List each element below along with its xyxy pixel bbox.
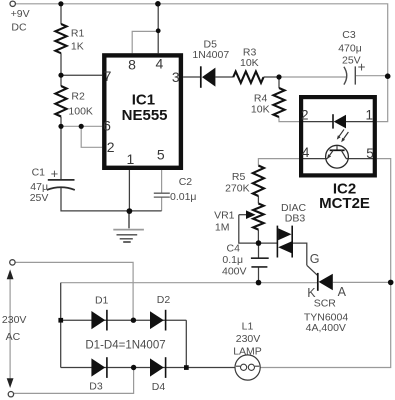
svg-text:L1: L1	[242, 321, 254, 333]
svg-text:+9V: +9V	[11, 8, 30, 20]
svg-text:1M: 1M	[215, 222, 230, 234]
svg-text:D1: D1	[95, 294, 109, 306]
svg-text:25V: 25V	[30, 192, 49, 204]
svg-text:6: 6	[103, 118, 111, 134]
svg-text:IC1: IC1	[132, 91, 155, 108]
svg-text:D3: D3	[89, 380, 103, 392]
svg-text:R2: R2	[71, 91, 85, 103]
svg-text:3: 3	[172, 69, 180, 85]
svg-text:470μ: 470μ	[338, 42, 362, 54]
svg-text:230V: 230V	[236, 333, 261, 345]
svg-text:8: 8	[128, 57, 136, 73]
svg-text:0.01μ: 0.01μ	[170, 191, 197, 203]
svg-text:D4: D4	[152, 381, 166, 393]
svg-text:DB3: DB3	[285, 213, 306, 225]
svg-text:+: +	[358, 60, 366, 75]
svg-text:270K: 270K	[225, 183, 250, 195]
svg-text:5: 5	[366, 146, 374, 161]
svg-text:G: G	[310, 252, 320, 266]
svg-text:1N4007: 1N4007	[192, 49, 229, 61]
svg-text:VR1: VR1	[214, 210, 235, 222]
svg-text:R5: R5	[232, 171, 246, 183]
svg-text:10K: 10K	[240, 57, 259, 69]
svg-text:+: +	[51, 166, 59, 181]
svg-text:4A,400V: 4A,400V	[306, 322, 346, 334]
svg-text:400V: 400V	[222, 266, 247, 278]
svg-text:MCT2E: MCT2E	[319, 195, 370, 212]
svg-text:1: 1	[127, 151, 135, 167]
svg-text:R1: R1	[71, 28, 85, 40]
svg-text:100K: 100K	[68, 106, 93, 118]
svg-text:SCR: SCR	[314, 297, 337, 309]
svg-text:AC: AC	[6, 331, 21, 343]
svg-text:D2: D2	[157, 294, 171, 306]
svg-text:C2: C2	[179, 176, 193, 188]
svg-text:LAMP: LAMP	[233, 346, 262, 358]
svg-text:4: 4	[156, 56, 164, 72]
svg-text:NE555: NE555	[122, 107, 168, 124]
svg-text:2: 2	[107, 139, 115, 155]
svg-text:5: 5	[157, 147, 165, 163]
svg-text:C4: C4	[227, 242, 241, 254]
svg-text:C1: C1	[32, 167, 46, 179]
svg-text:1: 1	[365, 108, 373, 123]
svg-text:2: 2	[301, 108, 309, 123]
svg-text:1K: 1K	[71, 40, 84, 52]
svg-text:D1-D4=1N4007: D1-D4=1N4007	[85, 339, 165, 351]
svg-text:10K: 10K	[251, 104, 270, 116]
svg-text:C3: C3	[342, 29, 356, 41]
svg-text:4: 4	[302, 145, 310, 160]
svg-text:7: 7	[104, 68, 112, 84]
svg-text:DC: DC	[11, 22, 27, 34]
svg-text:A: A	[338, 285, 347, 299]
svg-text:0.1μ: 0.1μ	[222, 254, 243, 266]
svg-text:230V: 230V	[2, 314, 27, 326]
